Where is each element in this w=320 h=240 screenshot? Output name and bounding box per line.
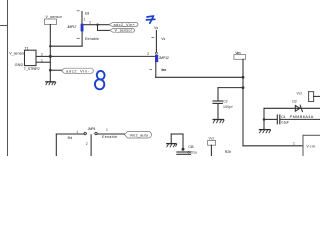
- global label V_sensor (net): [110, 29, 135, 33]
- svg-text:1: 1: [76, 130, 78, 134]
- wire: from Vcl rect to right edge: [314, 95, 320, 97]
- svg-text:V_sensor: V_sensor: [115, 29, 133, 33]
- svg-text:T_STRIP2: T_STRIP2: [24, 67, 40, 71]
- svg-text:R2b: R2b: [225, 150, 231, 154]
- svg-text:JMP17: JMP17: [67, 25, 77, 29]
- svg-text:Ent: Ent: [68, 136, 73, 140]
- svg-text:Vena: Vena: [161, 68, 167, 72]
- sheet border tick: [0, 25, 8, 27]
- wire: C4 rail left part: [264, 118, 277, 120]
- wire: T1 pin2 to long bus: [36, 55, 50, 57]
- svg-text:Eenable: Eenable: [85, 37, 99, 41]
- wire: Vcm vertical rail: [242, 59, 244, 146]
- JMP4 center stub down: [90, 135, 92, 156]
- resistor/port Vcl top right: [309, 92, 314, 102]
- JMP17 pin2 wire: [83, 24, 97, 26]
- wire: top right horizontal (diode rail): [264, 107, 320, 109]
- svg-text:1: 1: [84, 18, 86, 22]
- wire: junction to adc2_Vin+ label: [98, 24, 110, 26]
- svg-text:2: 2: [89, 21, 91, 25]
- jumper JMP17 body: [81, 24, 84, 32]
- wire: tap to adc2_Vin- label: [50, 69, 61, 71]
- wire: JMP12 to Vcm node (Vena net): [156, 76, 243, 78]
- JMP17 pin1 end dash: [77, 10, 79, 12]
- svg-text:Vcm: Vcm: [306, 144, 315, 148]
- svg-text:D2: D2: [292, 100, 297, 104]
- JMP17 pin3 dash: [77, 37, 79, 39]
- svg-text:Vin2_auto: Vin2_auto: [130, 133, 149, 137]
- wire: Eenable branch vertical to JMP17: [81, 31, 83, 46]
- JMP12 top net wire (Vs): [155, 30, 157, 52]
- wire: long horizontal to JMP12: [50, 55, 155, 57]
- connector T1 body: [25, 50, 37, 65]
- Vcm hierarchical port box: [234, 55, 246, 60]
- svg-text:C15: C15: [188, 145, 193, 149]
- wire: Vcl port down: [210, 145, 212, 156]
- svg-text:Vs: Vs: [161, 37, 165, 41]
- svg-text:Vcl: Vcl: [297, 92, 303, 96]
- svg-text:Vcl: Vcl: [209, 137, 215, 141]
- wire: corner down: [263, 108, 265, 129]
- V_sensor hierarchical port box: [45, 19, 57, 25]
- svg-text:Vcm: Vcm: [235, 51, 240, 55]
- jumper JMP12 body: [155, 55, 158, 62]
- sheet border left edge: [7, 0, 9, 156]
- wire: junction down: [97, 25, 99, 31]
- svg-text:0.01u: 0.01u: [188, 151, 197, 155]
- global label adc2_Vin-: [61, 68, 93, 73]
- wire: to V_sensor label: [98, 29, 110, 31]
- capacitor C15 plates: [177, 151, 191, 153]
- svg-text:V_sensor: V_sensor: [9, 51, 25, 55]
- JMP17 top pin wire: [81, 12, 83, 24]
- wire: C4 rail right part: [280, 118, 320, 120]
- wire: T1 pin1: [36, 61, 50, 63]
- diode D2: [295, 105, 302, 111]
- annotation blue 8: [94, 70, 105, 89]
- wire: C3 branch down: [217, 88, 219, 101]
- jumper JMP12 pad circle: [155, 52, 157, 54]
- ground (under T1 node): [45, 82, 270, 147]
- svg-text:0.1uF: 0.1uF: [281, 120, 289, 124]
- wire: C3 to ground: [217, 104, 219, 120]
- JMP4 pads: [84, 132, 86, 134]
- capacitor C3 plates: [213, 100, 222, 102]
- svg-text:JMP4: JMP4: [88, 127, 96, 131]
- svg-text:C3: C3: [223, 99, 228, 103]
- svg-text:100pf: 100pf: [223, 105, 233, 109]
- wire: Eenable branch horizontal: [50, 45, 82, 47]
- svg-text:T1: T1: [25, 46, 29, 50]
- ground (near C15): [166, 144, 177, 148]
- JMP12 bottom pin wire: [155, 62, 157, 77]
- svg-text:adc2_Vin-: adc2_Vin-: [66, 69, 90, 73]
- wire: C3 branch horizontal: [218, 87, 243, 89]
- JMP4 left wire and corner: [56, 133, 84, 135]
- wire: V_sensor port down to ground: [49, 25, 51, 82]
- wire: Vcm rail to IC pin 1: [243, 145, 303, 147]
- svg-text:PMMB6A4A: PMMB6A4A: [290, 114, 314, 119]
- svg-text:1: 1: [293, 141, 295, 145]
- svg-text:1: 1: [41, 59, 43, 63]
- n-shaped wire to C15: [170, 134, 172, 143]
- global label adc2_Vin+: [109, 23, 138, 27]
- svg-text:C4: C4: [281, 115, 286, 119]
- svg-text:GND: GND: [15, 63, 24, 67]
- JMP4 right wire to label: [97, 133, 124, 135]
- svg-text:Ent: Ent: [85, 11, 89, 15]
- svg-text:2: 2: [41, 53, 43, 57]
- svg-text:1: 1: [106, 128, 108, 132]
- svg-text:2: 2: [147, 52, 149, 56]
- svg-text:V_sensor: V_sensor: [45, 15, 62, 19]
- svg-text:adc2_Vin+: adc2_Vin+: [114, 23, 136, 27]
- JMP12 pin3 dash: [150, 68, 152, 70]
- annotation blue 7: [146, 16, 155, 23]
- Vcl hierarchical port box (bottom): [208, 141, 216, 146]
- JMP12 pin1 dash: [152, 37, 154, 39]
- ground (under C4 node): [259, 130, 271, 134]
- capacitor C4 plates: [276, 115, 278, 124]
- svg-text:Eenable: Eenable: [102, 135, 117, 139]
- global label Vin2_auto: [125, 131, 152, 138]
- ground (under C3): [213, 120, 225, 124]
- svg-text:2: 2: [86, 142, 88, 146]
- svg-text:Vs: Vs: [154, 26, 158, 30]
- svg-text:JMP12: JMP12: [159, 56, 169, 60]
- IC U box (bottom right, cut off): [303, 135, 320, 156]
